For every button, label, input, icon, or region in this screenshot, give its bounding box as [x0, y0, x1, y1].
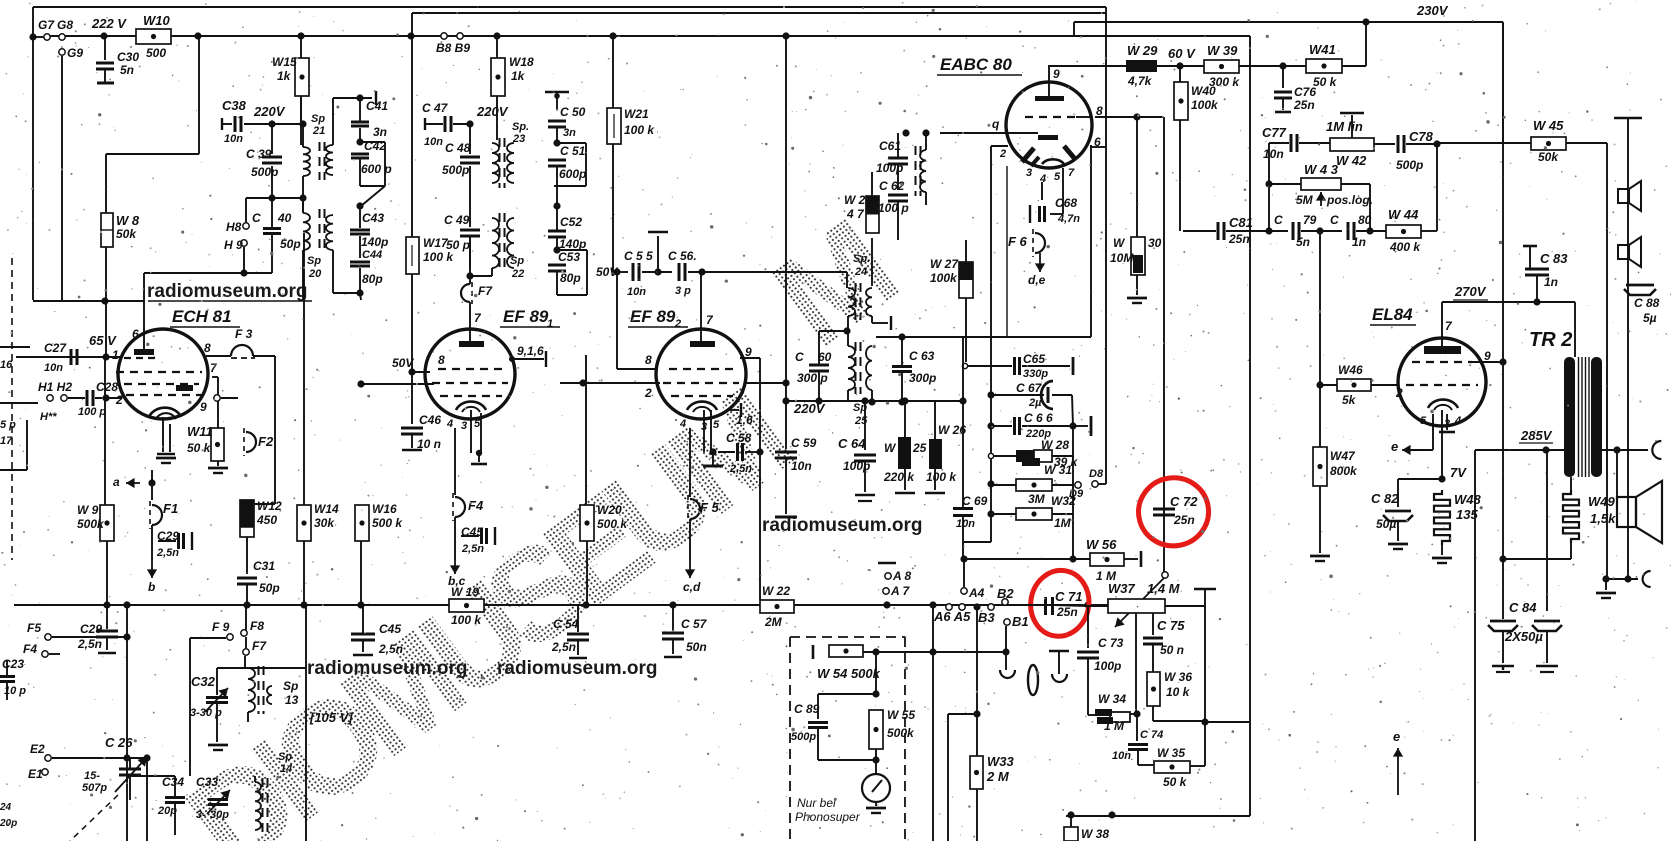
svg-text:W: W [884, 441, 897, 455]
svg-text:W 35: W 35 [1157, 746, 1185, 760]
svg-text:5n: 5n [120, 63, 134, 77]
svg-text:B1: B1 [1012, 614, 1029, 629]
svg-text:A6 A5: A6 A5 [933, 609, 971, 624]
svg-text:C46: C46 [419, 413, 441, 427]
svg-text:Sp: Sp [510, 255, 524, 267]
svg-text:E1: E1 [28, 767, 43, 781]
svg-text:7: 7 [1068, 167, 1075, 179]
svg-text:10n: 10n [627, 286, 646, 298]
svg-text:2: 2 [674, 318, 681, 330]
svg-text:C 84: C 84 [1509, 600, 1537, 615]
svg-text:F 6: F 6 [1008, 234, 1028, 249]
svg-text:25: 25 [854, 415, 868, 427]
svg-text:A 8: A 8 [892, 569, 912, 583]
svg-text:2,5n: 2,5n [551, 640, 576, 654]
svg-text:5n: 5n [1296, 235, 1310, 249]
svg-text:60: 60 [818, 350, 832, 364]
svg-text:B3: B3 [978, 610, 995, 625]
svg-text:50n: 50n [686, 640, 707, 654]
svg-text:F2: F2 [258, 434, 274, 449]
svg-text:G9: G9 [67, 46, 83, 60]
svg-text:2: 2 [115, 393, 123, 407]
svg-text:F 5: F 5 [700, 500, 720, 515]
svg-text:C 88: C 88 [1634, 296, 1660, 310]
svg-text:EABC 80: EABC 80 [940, 55, 1012, 74]
svg-text:C38: C38 [222, 98, 247, 113]
svg-text:C78: C78 [1409, 129, 1434, 144]
svg-text:d,e: d,e [1028, 273, 1046, 287]
svg-text:220 k: 220 k [883, 470, 915, 484]
svg-text:W 44: W 44 [1388, 207, 1419, 222]
svg-text:3 p: 3 p [675, 285, 691, 297]
svg-text:100p: 100p [876, 161, 903, 175]
svg-text:140p: 140p [361, 235, 388, 249]
svg-text:W10: W10 [143, 13, 171, 28]
svg-text:F 3: F 3 [235, 327, 253, 341]
svg-text:140p: 140p [559, 237, 586, 251]
svg-text:W 38: W 38 [1081, 827, 1109, 841]
svg-text:100 k: 100 k [423, 250, 454, 264]
svg-text:10n: 10n [1112, 750, 1131, 762]
svg-text:W49: W49 [1588, 494, 1616, 509]
svg-text:500p: 500p [251, 165, 278, 179]
svg-text:W 42: W 42 [1336, 153, 1367, 168]
svg-text:1: 1 [112, 348, 119, 362]
svg-text:C: C [1274, 213, 1283, 227]
svg-text:500: 500 [146, 46, 166, 60]
svg-text:21: 21 [312, 125, 325, 137]
svg-text:W12: W12 [257, 499, 282, 513]
svg-text:2,5n: 2,5n [156, 547, 179, 559]
svg-text:500p: 500p [442, 163, 469, 177]
svg-text:1k: 1k [511, 69, 526, 83]
svg-text:W16: W16 [372, 502, 397, 516]
svg-text:C81: C81 [1229, 215, 1253, 230]
svg-text:24: 24 [0, 802, 12, 813]
svg-text:F8: F8 [250, 619, 264, 633]
svg-text:Nur bei: Nur bei [797, 796, 836, 810]
svg-text:W 55: W 55 [887, 708, 915, 722]
svg-text:C 69: C 69 [962, 494, 988, 508]
svg-text:60 V: 60 V [1168, 46, 1196, 61]
svg-text:8: 8 [1096, 104, 1103, 118]
svg-text:9: 9 [1484, 349, 1491, 363]
svg-text:Sp: Sp [278, 751, 292, 763]
svg-text:C 58: C 58 [726, 431, 752, 445]
svg-text:W 45: W 45 [1533, 118, 1564, 133]
svg-text:50p: 50p [280, 237, 301, 251]
svg-text:C 26: C 26 [105, 735, 133, 750]
svg-text:1,4 M: 1,4 M [1147, 581, 1181, 596]
svg-text:10n: 10n [44, 362, 63, 374]
svg-text:W11: W11 [187, 424, 213, 439]
svg-text:25n: 25n [1228, 232, 1250, 246]
svg-text:100k: 100k [1191, 98, 1219, 112]
svg-text:5 p: 5 p [0, 419, 16, 431]
svg-text:radiomuseum.org: radiomuseum.org [307, 658, 467, 679]
svg-text:5M: 5M [1296, 193, 1314, 207]
svg-text:4: 4 [1454, 415, 1461, 427]
svg-text:C 56.: C 56. [668, 249, 697, 263]
svg-text:25n: 25n [1293, 98, 1315, 112]
svg-text:1: 1 [547, 318, 553, 330]
svg-text:13: 13 [285, 693, 299, 707]
svg-text:ECH 81: ECH 81 [172, 307, 232, 326]
svg-text:5: 5 [1054, 171, 1061, 183]
svg-text:W33: W33 [987, 754, 1015, 769]
svg-text:3: 3 [1026, 167, 1032, 179]
svg-text:W 22: W 22 [762, 584, 790, 598]
svg-text:C77: C77 [1262, 125, 1287, 140]
svg-text:50 k: 50 k [1163, 775, 1188, 789]
svg-text:330p: 330p [1023, 368, 1048, 380]
svg-text:C 57: C 57 [681, 617, 708, 631]
svg-text:C 48: C 48 [445, 141, 471, 155]
svg-text:25n: 25n [1173, 513, 1195, 527]
svg-text:500k: 500k [887, 726, 915, 740]
svg-text:F5: F5 [27, 621, 41, 635]
svg-text:24: 24 [854, 266, 867, 278]
svg-text:2,5n: 2,5n [729, 463, 752, 475]
svg-text:8: 8 [438, 353, 445, 367]
svg-text:20p: 20p [157, 805, 177, 817]
svg-text:D8: D8 [1089, 468, 1104, 480]
svg-text:C 49: C 49 [444, 213, 470, 227]
svg-text:C 83: C 83 [1540, 251, 1568, 266]
svg-text:F1: F1 [163, 501, 178, 516]
svg-text:C43: C43 [362, 211, 384, 225]
svg-text:C52: C52 [560, 215, 582, 229]
svg-text:10n: 10n [791, 459, 812, 473]
svg-text:100k: 100k [930, 271, 958, 285]
svg-text:W14: W14 [314, 502, 339, 516]
svg-text:7V: 7V [1450, 465, 1467, 480]
svg-text:W 34: W 34 [1098, 692, 1126, 706]
svg-text:F4: F4 [468, 498, 484, 513]
svg-text:2 M: 2 M [986, 769, 1010, 784]
svg-text:H8: H8 [226, 220, 242, 234]
svg-text:TR 2: TR 2 [1529, 329, 1572, 351]
svg-text:220V: 220V [253, 104, 286, 119]
svg-text:W46: W46 [1338, 363, 1363, 377]
svg-text:EL84: EL84 [1372, 305, 1413, 324]
svg-text:C45: C45 [379, 622, 401, 636]
svg-text:b: b [148, 580, 155, 594]
svg-text:C: C [1330, 213, 1339, 227]
svg-text:5k: 5k [1342, 393, 1357, 407]
svg-text:3n: 3n [373, 125, 387, 139]
svg-text:C 51: C 51 [560, 144, 586, 158]
svg-text:W 31: W 31 [1044, 463, 1072, 477]
svg-text:F7: F7 [478, 284, 493, 298]
svg-text:8: 8 [204, 341, 211, 355]
svg-text:W47: W47 [1330, 449, 1356, 463]
svg-text:W: W [1113, 236, 1126, 250]
svg-text:20: 20 [308, 268, 322, 280]
svg-text:W 56: W 56 [1086, 537, 1117, 552]
svg-text:50V: 50V [392, 356, 414, 370]
svg-text:e: e [1393, 729, 1400, 744]
svg-text:222 V: 222 V [91, 16, 127, 31]
svg-text:10n: 10n [224, 133, 243, 145]
svg-text:C 59: C 59 [791, 436, 817, 450]
svg-text:C32: C32 [191, 674, 216, 689]
svg-text:500k: 500k [77, 517, 105, 531]
svg-text:1,6: 1,6 [736, 413, 753, 427]
svg-text:W20: W20 [597, 503, 622, 517]
svg-text:W 39: W 39 [1207, 43, 1238, 58]
svg-text:W37: W37 [1108, 581, 1136, 596]
svg-text:radiomuseum.org: radiomuseum.org [147, 281, 307, 302]
svg-text:C65: C65 [1023, 352, 1045, 366]
svg-text:4 7: 4 7 [846, 207, 865, 221]
svg-text:5: 5 [1420, 415, 1427, 427]
svg-text:50 n: 50 n [1160, 643, 1184, 657]
svg-text:450: 450 [256, 513, 277, 527]
svg-text:5: 5 [474, 418, 481, 430]
svg-text:G8: G8 [57, 18, 73, 32]
svg-text:W21: W21 [624, 107, 649, 121]
svg-text:220V: 220V [793, 401, 826, 416]
svg-text:pos.log.: pos.log. [1326, 193, 1373, 207]
svg-text:W15: W15 [272, 55, 297, 69]
svg-text:3n: 3n [563, 127, 576, 139]
svg-text:65 V: 65 V [89, 333, 117, 348]
svg-text:H1 H2: H1 H2 [38, 380, 72, 394]
svg-text:C33: C33 [196, 775, 218, 789]
svg-text:17: 17 [0, 435, 13, 447]
svg-text:C: C [795, 350, 804, 364]
svg-text:Sp.: Sp. [853, 253, 870, 265]
svg-text:1M: 1M [1054, 516, 1072, 530]
svg-text:10n: 10n [956, 518, 975, 530]
svg-text:220V: 220V [476, 104, 509, 119]
svg-text:F 9: F 9 [212, 620, 230, 634]
svg-text:10 k: 10 k [1166, 685, 1191, 699]
svg-text:C41: C41 [366, 99, 388, 113]
svg-text:2: 2 [999, 148, 1006, 160]
svg-text:1 M: 1 M [1104, 719, 1125, 733]
svg-text:23: 23 [512, 133, 525, 145]
svg-text:9: 9 [1053, 67, 1060, 81]
svg-text:80p: 80p [362, 272, 383, 286]
svg-text:W 27: W 27 [930, 257, 959, 271]
svg-text:C 63: C 63 [909, 349, 935, 363]
svg-text:2: 2 [1395, 386, 1403, 400]
svg-text:2,5n: 2,5n [77, 637, 102, 651]
svg-text:2,5n: 2,5n [378, 642, 403, 656]
svg-text:50k: 50k [116, 227, 137, 241]
svg-text:A4: A4 [968, 586, 985, 600]
svg-text:C 50: C 50 [560, 105, 586, 119]
svg-text:C68: C68 [1055, 196, 1077, 210]
svg-text:H**: H** [40, 411, 57, 423]
svg-text:C53: C53 [558, 250, 580, 264]
svg-text:1n: 1n [1352, 235, 1366, 249]
svg-text:C28: C28 [96, 380, 118, 394]
svg-text:c,d: c,d [683, 580, 701, 594]
svg-text:C 62: C 62 [879, 179, 905, 193]
svg-text:2,5n: 2,5n [461, 543, 484, 555]
svg-text:1M lin: 1M lin [1326, 119, 1363, 134]
svg-text:2X50µ: 2X50µ [1504, 629, 1543, 644]
svg-text:B2: B2 [997, 586, 1014, 601]
svg-text:300 p: 300 p [797, 371, 828, 385]
svg-text:15-: 15- [84, 770, 100, 782]
svg-text:EF 89: EF 89 [503, 307, 549, 326]
svg-text:9: 9 [745, 345, 752, 359]
svg-text:8: 8 [645, 353, 652, 367]
svg-text:25: 25 [912, 441, 927, 455]
svg-text:W 4 3: W 4 3 [1304, 162, 1339, 177]
svg-text:10M: 10M [1110, 251, 1134, 265]
svg-text:Sp.: Sp. [512, 121, 529, 133]
svg-text:radiomuseum.org: radiomuseum.org [497, 658, 657, 679]
svg-text:C 64: C 64 [838, 436, 866, 451]
svg-text:W17: W17 [423, 236, 449, 250]
svg-text:C 74: C 74 [1140, 729, 1163, 741]
svg-text:C30: C30 [117, 50, 139, 64]
svg-text:40: 40 [277, 211, 292, 225]
svg-text:500 k: 500 k [372, 516, 403, 530]
svg-text:3: 3 [461, 420, 467, 432]
svg-text:10n: 10n [1263, 147, 1284, 161]
svg-text:Sp: Sp [283, 679, 298, 693]
svg-text:500p: 500p [791, 731, 816, 743]
svg-text:50 k: 50 k [187, 441, 212, 455]
svg-text:2: 2 [644, 386, 652, 400]
svg-text:W 9: W 9 [77, 503, 99, 517]
svg-text:B8 B9: B8 B9 [436, 41, 470, 55]
svg-text:Phonosuper: Phonosuper [795, 810, 861, 824]
svg-text:3-: 3- [196, 809, 206, 821]
svg-text:W18: W18 [509, 55, 534, 69]
svg-text:W 54 500k: W 54 500k [817, 666, 881, 681]
svg-text:C 71: C 71 [1055, 589, 1082, 604]
svg-text:C 82: C 82 [1371, 491, 1399, 506]
svg-text:2M: 2M [764, 615, 783, 629]
svg-text:C 6 6: C 6 6 [1024, 411, 1053, 425]
svg-text:A 7: A 7 [890, 584, 911, 598]
svg-text:4: 4 [446, 418, 453, 430]
svg-text:25n: 25n [1056, 605, 1078, 619]
svg-text:C 67: C 67 [1016, 381, 1043, 395]
svg-text:507p: 507p [82, 782, 107, 794]
svg-text:1,5k: 1,5k [1590, 511, 1616, 526]
svg-text:C 5 5: C 5 5 [624, 249, 653, 263]
svg-text:9: 9 [200, 400, 207, 414]
svg-text:50 k: 50 k [1313, 75, 1338, 89]
svg-text:9,1,6: 9,1,6 [517, 344, 544, 358]
svg-text:600 p: 600 p [361, 162, 392, 176]
svg-text:C44: C44 [362, 249, 382, 261]
svg-text:3M: 3M [1028, 492, 1046, 506]
svg-text:6: 6 [132, 327, 139, 341]
svg-text:F7: F7 [252, 639, 267, 653]
svg-text:5µ: 5µ [1643, 311, 1657, 325]
svg-text:W 24: W 24 [844, 193, 872, 207]
svg-text:W41: W41 [1309, 42, 1336, 57]
svg-text:80p: 80p [560, 271, 581, 285]
svg-text:a: a [113, 475, 120, 489]
svg-text:[105 V]: [105 V] [309, 710, 353, 725]
svg-text:10n: 10n [424, 136, 443, 148]
svg-text:e: e [1391, 439, 1398, 454]
svg-text:100 k: 100 k [624, 123, 655, 137]
svg-text:H 9: H 9 [224, 238, 243, 252]
svg-text:W 29: W 29 [1127, 43, 1158, 58]
svg-text:W40: W40 [1191, 84, 1216, 98]
svg-text:30p: 30p [210, 809, 229, 821]
svg-text:C27: C27 [44, 341, 67, 355]
svg-text:C 73: C 73 [1098, 636, 1124, 650]
svg-text:C 72: C 72 [1170, 494, 1198, 509]
svg-text:E2: E2 [30, 742, 45, 756]
svg-text:100 p: 100 p [78, 406, 106, 418]
svg-text:W 8: W 8 [116, 213, 140, 228]
svg-text:50k: 50k [1538, 150, 1559, 164]
svg-text:Sp: Sp [311, 113, 325, 125]
svg-text:C 47: C 47 [422, 101, 449, 115]
svg-text:G7: G7 [38, 18, 55, 32]
svg-text:2µ: 2µ [1028, 397, 1042, 409]
svg-text:Sp: Sp [307, 255, 321, 267]
svg-text:270V: 270V [1454, 284, 1487, 299]
svg-text:600p: 600p [559, 167, 586, 181]
svg-text:4,7k: 4,7k [1127, 74, 1153, 88]
svg-text:C 89: C 89 [794, 702, 820, 716]
svg-text:100 k: 100 k [926, 470, 957, 484]
svg-text:C34: C34 [162, 775, 184, 789]
svg-text:C 54: C 54 [553, 617, 579, 631]
svg-text:100 k: 100 k [451, 613, 482, 627]
svg-text:5: 5 [713, 419, 720, 431]
svg-text:C23: C23 [2, 657, 24, 671]
svg-text:F4: F4 [23, 642, 37, 656]
svg-text:q: q [992, 117, 1000, 131]
svg-text:W48: W48 [1454, 492, 1482, 507]
svg-text:C 75: C 75 [1157, 618, 1185, 633]
svg-text:79: 79 [1303, 213, 1317, 227]
svg-text:300p: 300p [909, 371, 936, 385]
svg-text:4: 4 [679, 418, 686, 430]
svg-text:EF 89: EF 89 [630, 307, 676, 326]
svg-text:80: 80 [1358, 213, 1372, 227]
svg-text:500p: 500p [1396, 158, 1423, 172]
svg-text:100p: 100p [1094, 659, 1121, 673]
svg-text:16: 16 [0, 359, 13, 371]
svg-text:400 k: 400 k [1389, 240, 1421, 254]
svg-text:C29: C29 [80, 622, 102, 636]
svg-text:14: 14 [280, 763, 292, 775]
svg-text:30k: 30k [314, 516, 335, 530]
svg-text:50p: 50p [259, 581, 280, 595]
svg-text:C: C [252, 211, 261, 225]
svg-text:22: 22 [511, 268, 524, 280]
svg-text:1k: 1k [277, 69, 292, 83]
svg-text:W 19: W 19 [451, 585, 479, 599]
svg-text:100 p: 100 p [878, 201, 909, 215]
